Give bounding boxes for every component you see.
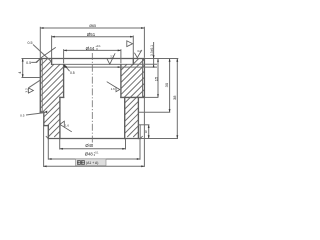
ext line bore left up [63,49,65,63]
left lower step [44,125,49,127]
leader left step [26,113,45,115]
arrows bore dim inside [64,66,67,68]
arrows left dim [22,58,24,61]
svg-text:38: 38 [172,95,177,100]
recess bottom ext right [133,63,157,65]
right flange bottom [121,96,144,98]
dim phi48 bottom [48,158,140,160]
arrows dim30 [169,59,171,62]
ext bottom right OD [143,98,145,167]
right small dim vertical [153,42,155,67]
ext line recess left up [51,36,53,59]
arrows phi44 [64,49,67,51]
roughness symbol top surface right [135,50,142,58]
left lower ext line [22,77,41,79]
svg-text:1.6: 1.6 [65,123,69,127]
recess right wall [132,59,134,65]
lower bore left wall [59,97,61,138]
small5 dim vertical [148,125,150,139]
bottom ext right [141,138,178,140]
ext line 30 [138,111,170,113]
leader chamfer label2 [31,59,40,62]
dim line phi44 [64,49,121,51]
tail bore right symbol [107,82,116,88]
arrows small5 [148,125,150,128]
datum triangle right [127,41,133,47]
dim 15 vertical [157,59,159,98]
arrow left step leader [44,111,47,114]
dim line phi65 top [40,27,144,29]
ext line bore right up [120,49,122,63]
arrows dim15 [157,59,159,62]
recess left wall [51,59,53,65]
svg-text:Ø48: Ø48 [85,151,94,156]
ext line recess right up [132,36,134,59]
dim phi40 bottom [60,148,126,150]
ext line left OD up [39,27,41,58]
caption glyph 2 [81,161,84,165]
arrows phi65 bottom [43,165,46,167]
svg-text:3.2: 3.2 [110,55,114,59]
svg-text:(A1 + A): (A1 + A) [86,161,98,165]
bottom right chamfer diagonal [140,136,143,138]
caption glyph 1 [77,161,80,165]
bore right wall [120,64,122,97]
arrows right small dim [153,55,155,58]
flange bottom ext right [144,96,158,98]
ext phi40 left [59,139,61,150]
top surface [40,58,144,60]
left body wall [47,126,49,139]
bore left wall [63,64,65,97]
right body wall [137,97,139,138]
svg-text:3.2: 3.2 [25,88,29,93]
svg-text:0.5: 0.5 [20,113,25,117]
svg-text:Ø51: Ø51 [87,32,96,37]
arrows phi48 [48,158,51,160]
left vertical dim line [22,58,24,77]
svg-text:3.2: 3.2 [137,49,141,53]
left top chamfer diagonal [40,59,42,61]
svg-text:Ø65: Ø65 [89,24,96,28]
arrow bore chamfer leader [64,65,67,68]
right body chamfer line [139,125,141,139]
bottom left chamfer diagonal [46,136,49,138]
ext bottom left OD [43,126,45,167]
ext phi48 right [139,139,141,160]
svg-text:1.6: 1.6 [111,87,115,91]
roughness triangle left wall [28,88,33,93]
top surface ext right [144,58,178,60]
arrows phi40 [60,148,63,150]
lower bore right wall [124,97,126,138]
ext line small5 top [138,124,149,126]
svg-text:0.5: 0.5 [26,61,31,65]
roughness check top-left corner [37,48,56,63]
left chamfer line [41,59,43,113]
right top chamfer diagonal [143,59,145,61]
svg-text:30: 30 [164,82,169,87]
roughness symbol bore right wall [116,87,120,91]
left step [40,111,44,113]
leader bore chamfer [64,65,70,72]
dim 38 vertical [176,59,178,139]
hatch lines [0,57,219,137]
bore left step [60,96,64,98]
ext phi48 left [47,139,49,160]
right outer wall [143,59,145,98]
dim phi65 bottom [43,165,144,167]
leader label 3.2 tail [29,80,40,87]
arrows dim38 [176,59,178,62]
svg-text:3.3±0.1: 3.3±0.1 [150,45,154,56]
centerline [91,53,93,143]
leader chamfer label1 [33,45,51,62]
roughness symbol recess bottom [107,54,115,65]
roughness symbol lower bore left wall [60,121,65,127]
ext line right OD up [143,27,145,58]
svg-text:Ø40: Ø40 [85,143,94,148]
svg-text:5: 5 [145,130,147,134]
top surface ext left [22,58,40,60]
ext phi40 right [125,139,127,150]
caption box [76,159,107,166]
bottom surface [48,138,140,140]
left outer wall [39,59,41,113]
bore dim line inside [64,66,157,68]
left bottom chamfer diagonal [40,110,42,112]
svg-text:Ø44: Ø44 [86,46,95,51]
recess bottom edge [52,63,134,65]
svg-text:0.5: 0.5 [70,71,75,75]
dim 30 vertical [169,59,171,113]
tail lower bore symbol [64,127,71,132]
svg-text:15: 15 [154,76,159,81]
dim line phi51 [52,36,134,38]
left mid wall [43,112,45,125]
arrows phi65 top [40,27,43,29]
svg-text:0.5: 0.5 [28,41,33,45]
right chamfer line [142,59,144,98]
arrows phi51 [52,36,55,38]
